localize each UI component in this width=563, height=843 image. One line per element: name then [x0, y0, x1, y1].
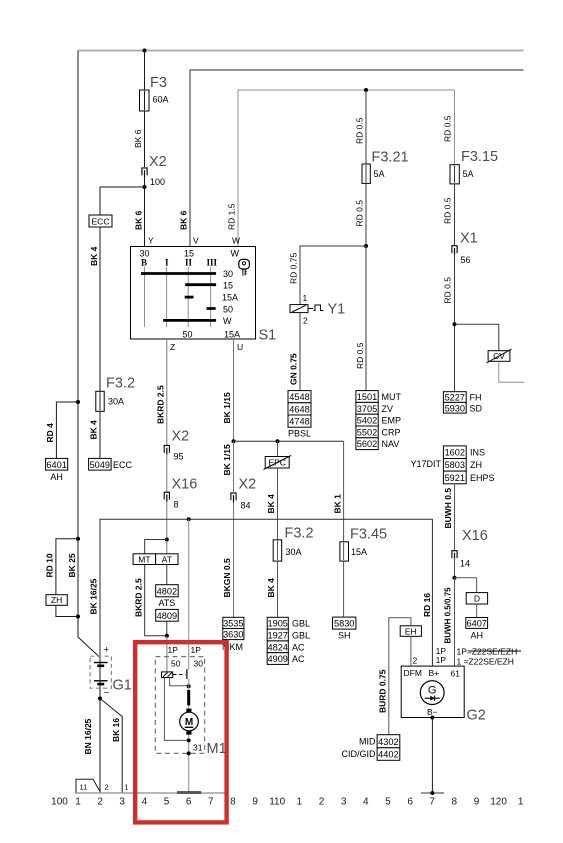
svg-text:15: 15	[223, 281, 233, 291]
svg-text:30: 30	[194, 659, 204, 669]
wire: X2-95 to X16-8	[166, 454, 168, 492]
svg-text:Y1: Y1	[328, 302, 346, 318]
svg-text:NAV: NAV	[382, 439, 400, 449]
wire: EPC down across bus to fuse F3.2 30A	[277, 468, 279, 540]
ground strap symbol at track 1	[76, 779, 100, 793]
wire: AT box to 4802	[166, 565, 168, 585]
node: F3.21 tap on W feed	[364, 88, 368, 92]
code stack 3535/3630 MKM	[223, 617, 244, 628]
wire: branch to Y1	[300, 246, 366, 305]
svg-text:BK 4: BK 4	[89, 246, 99, 266]
S1 contact bar 30	[141, 272, 216, 275]
node: starter solenoid feed	[165, 634, 169, 638]
box ZH	[46, 595, 67, 606]
wire: W feed line to fuses F3.21 / F3.15	[238, 90, 455, 247]
wire: EH to DFM pin 2	[410, 636, 412, 666]
M1 contact lever	[186, 669, 188, 679]
svg-text:50: 50	[183, 330, 193, 340]
G2 ground bar on track 7	[421, 792, 444, 794]
fuse F3 60A	[140, 90, 150, 111]
svg-text:95: 95	[174, 452, 184, 462]
svg-text:MT: MT	[138, 554, 150, 564]
svg-text:X1: X1	[460, 231, 478, 247]
wire: 4809 to starter node	[166, 621, 168, 636]
box 4809	[156, 609, 179, 621]
wire: node down to G2 terminal 61	[454, 578, 456, 666]
box EPC (crossed)	[277, 441, 279, 456]
svg-text:F3.21: F3.21	[372, 150, 409, 166]
svg-text:FH: FH	[470, 393, 482, 403]
wire: X2-84 down to 3535 codes	[233, 503, 235, 617]
svg-text:B−: B−	[427, 707, 438, 717]
wire: branch to MT box	[145, 540, 167, 554]
svg-text:11: 11	[80, 783, 88, 792]
svg-text:RD 0.5: RD 0.5	[443, 277, 453, 304]
highlight box (red)	[135, 642, 226, 822]
wire: diagonal to BK16 ground leg	[100, 699, 122, 794]
wire: S1 Z output to X2-95	[166, 339, 168, 445]
svg-text:RD 4: RD 4	[45, 423, 55, 443]
svg-text:CRP: CRP	[382, 427, 401, 437]
svg-text:6407: 6407	[466, 618, 486, 628]
node: ECC branch	[143, 185, 147, 189]
S1 contact bar 15	[185, 283, 216, 286]
svg-text:5: 5	[164, 797, 170, 808]
wire: branch to ZH box	[56, 539, 78, 595]
svg-text:5049: 5049	[90, 460, 110, 470]
node: housing exit	[187, 751, 191, 755]
node: B- exit	[430, 716, 434, 720]
wire: ECC box down to fuse F3.2	[99, 227, 101, 392]
wire: F3.15 to X1	[454, 184, 456, 245]
wire: X16-8 down across bus to MT/AT node	[166, 502, 168, 554]
battery G1 dashed housing	[90, 656, 111, 688]
svg-text:4802: 4802	[157, 586, 177, 596]
svg-text:4302: 4302	[378, 737, 398, 747]
svg-text:BK 16: BK 16	[111, 718, 121, 742]
svg-text:EMP: EMP	[382, 416, 402, 426]
svg-text:RD 1.5: RD 1.5	[227, 203, 237, 230]
svg-text:3: 3	[119, 797, 125, 808]
wire: branch to D box	[455, 578, 477, 593]
svg-text:ATS: ATS	[158, 598, 175, 608]
svg-text:14: 14	[460, 559, 470, 569]
svg-text:BK 1/15: BK 1/15	[222, 392, 232, 423]
fuse F3.15 5A	[450, 165, 459, 184]
svg-text:RD 10: RD 10	[45, 553, 55, 577]
svg-text:Y17DIT: Y17DIT	[410, 459, 441, 469]
svg-text:U: U	[237, 342, 243, 352]
S1 contact bar 50	[207, 307, 216, 310]
svg-text:BKGN 0.5: BKGN 0.5	[222, 558, 232, 597]
svg-text:X2: X2	[239, 477, 257, 493]
svg-text:4809: 4809	[157, 611, 177, 621]
code stack 5227/5930	[443, 392, 466, 403]
svg-text:RD 0.5: RD 0.5	[355, 200, 365, 227]
connector X16 pin 14	[452, 551, 457, 558]
svg-text:RD 0.5: RD 0.5	[443, 115, 453, 142]
svg-text:−: −	[104, 688, 109, 698]
code box 6407 AH	[466, 618, 488, 629]
code box 5830 SH	[333, 617, 356, 629]
svg-text:X16: X16	[462, 528, 488, 544]
wire: rail right end down to F3.45	[343, 441, 345, 542]
svg-text:BUWH 0.5: BUWH 0.5	[443, 488, 453, 529]
svg-text:120: 120	[490, 797, 507, 808]
box AT	[156, 554, 178, 565]
svg-text:Y: Y	[148, 236, 154, 246]
svg-text:BK 1: BK 1	[333, 494, 343, 514]
fuse F3.45 15A	[340, 542, 349, 561]
M1 solenoid coil	[162, 672, 173, 678]
box D	[466, 593, 487, 604]
wire: X16-14 to D-branch node	[454, 558, 456, 578]
svg-text:X16: X16	[172, 477, 198, 493]
svg-text:ECC: ECC	[92, 217, 110, 227]
svg-text:5502: 5502	[357, 427, 377, 437]
svg-text:B: B	[141, 258, 147, 268]
box MT	[133, 554, 156, 565]
svg-text:B+: B+	[429, 668, 440, 678]
svg-text:F3.2: F3.2	[106, 376, 135, 392]
svg-text:BK 6: BK 6	[134, 210, 144, 230]
svg-text:EH: EH	[405, 626, 417, 636]
svg-text:30: 30	[223, 269, 233, 279]
svg-text:III: III	[207, 258, 218, 268]
svg-text:ECC: ECC	[113, 460, 133, 470]
S1 contact bar W	[163, 319, 216, 322]
wire: fuse to 1905 codes	[277, 561, 279, 617]
code stack 4548/4648/4748 PBSL	[288, 391, 311, 403]
svg-text:3705: 3705	[357, 404, 377, 414]
svg-text:30A: 30A	[108, 397, 124, 407]
wire: F3.21 column upper	[365, 90, 367, 165]
svg-text:ZH: ZH	[470, 460, 482, 470]
svg-text:6: 6	[407, 797, 413, 808]
wire: branch to ECC box	[100, 187, 145, 215]
svg-text:1 =Z22SE/EZH: 1 =Z22SE/EZH	[457, 656, 514, 666]
node: 6401 branch on frame trunk	[76, 400, 80, 404]
svg-text:1P: 1P	[191, 645, 202, 655]
svg-text:2: 2	[413, 655, 418, 665]
svg-text:W: W	[232, 236, 240, 246]
svg-text:4909: 4909	[267, 654, 287, 664]
svg-text:BK 4: BK 4	[266, 494, 276, 514]
svg-text:W: W	[231, 249, 240, 259]
svg-text:1927: 1927	[267, 631, 287, 641]
svg-text:4748: 4748	[289, 417, 309, 427]
ignition switch S1 box	[131, 247, 256, 340]
code stack 1602/5803/5921	[443, 446, 466, 459]
wire: EPC rail	[234, 440, 344, 442]
svg-text:6401: 6401	[46, 460, 66, 470]
svg-text:AC: AC	[292, 642, 305, 652]
svg-text:2: 2	[97, 797, 103, 808]
wire: Y1 down to 4548 code box	[299, 313, 301, 391]
svg-text:1: 1	[303, 293, 308, 303]
svg-text:RD 0.75: RD 0.75	[289, 253, 299, 284]
node: minus join	[187, 738, 191, 742]
svg-text:4648: 4648	[289, 404, 309, 414]
battery cell plates	[94, 662, 108, 664]
svg-text:4402: 4402	[378, 750, 398, 760]
generator symbol	[420, 681, 444, 705]
wire: F3.15 column upper	[454, 164, 456, 166]
wire: D box to 6407	[476, 604, 478, 618]
svg-text:15A: 15A	[224, 330, 240, 340]
wire: CV exit to page edge	[499, 361, 524, 382]
fuse F3.2 (left 30A)	[96, 391, 104, 411]
svg-text:X2: X2	[149, 154, 167, 170]
svg-text:1501: 1501	[357, 392, 377, 402]
generator G2 box	[401, 666, 464, 717]
node: M1 contact output	[187, 684, 191, 688]
code box 6401 AH	[46, 458, 68, 470]
svg-text:9: 9	[252, 797, 258, 808]
svg-text:MUT: MUT	[382, 392, 402, 402]
box CV (crossed)	[488, 351, 510, 362]
svg-text:BUWH 0.5/0.75: BUWH 0.5/0.75	[444, 587, 453, 644]
svg-text:D: D	[474, 594, 480, 604]
node: MT/AT split	[165, 538, 169, 542]
svg-text:3630: 3630	[223, 630, 243, 640]
svg-text:GBL: GBL	[292, 631, 310, 641]
svg-text:Z: Z	[170, 342, 175, 352]
S1 contact bar 15A	[185, 296, 194, 299]
svg-text:BK 16/25: BK 16/25	[89, 578, 99, 614]
M1 ground bar on track 6	[177, 791, 201, 794]
svg-text:5: 5	[385, 797, 391, 808]
connector X2 pin 95	[164, 445, 169, 452]
svg-text:30A: 30A	[286, 547, 302, 557]
wire: motor minus to terminal 31	[188, 735, 190, 793]
svg-text:BKRD 2.5: BKRD 2.5	[156, 385, 166, 424]
svg-text:2: 2	[319, 797, 325, 808]
node: Y1 branch junction	[364, 244, 368, 248]
svg-text:INS: INS	[470, 448, 485, 458]
svg-text:I: I	[165, 258, 169, 268]
svg-text:5602: 5602	[357, 439, 377, 449]
svg-text:AT: AT	[162, 554, 172, 564]
svg-text:F3.45: F3.45	[350, 527, 387, 543]
svg-text:5803: 5803	[445, 460, 465, 470]
svg-text:II: II	[185, 258, 193, 268]
fuse F3.21 5A	[362, 164, 370, 183]
svg-text:RD 0.5: RD 0.5	[355, 342, 365, 369]
svg-text:BK 6: BK 6	[179, 210, 189, 230]
svg-text:4824: 4824	[267, 642, 287, 652]
svg-text:4548: 4548	[289, 392, 309, 402]
svg-text:3535: 3535	[223, 619, 243, 629]
motor M circle	[180, 712, 199, 731]
node: ZH rejoin	[76, 615, 80, 619]
svg-text:9: 9	[474, 797, 480, 808]
svg-text:PBSL: PBSL	[288, 429, 311, 439]
starter M1 dashed housing	[155, 657, 204, 754]
svg-text:G1: G1	[113, 678, 132, 694]
svg-text:1: 1	[297, 797, 303, 808]
svg-text:G: G	[428, 684, 437, 696]
solenoid valve Y1	[290, 305, 308, 313]
wire: bus tap down to M1 pin 30	[188, 519, 190, 669]
svg-text:1905: 1905	[267, 619, 287, 629]
wire: below X2-100 to S1 terminal Y	[144, 177, 146, 247]
svg-text:8: 8	[452, 797, 458, 808]
svg-text:AC: AC	[292, 654, 305, 664]
connector X16 pin 8	[164, 492, 169, 499]
svg-text:56: 56	[461, 255, 471, 265]
svg-text:BK 4: BK 4	[89, 420, 99, 440]
svg-text:BK 4: BK 4	[266, 578, 276, 598]
wire: M1 coil hold winding to motor minus	[164, 678, 188, 741]
wire: 15 feed line (black, second)	[190, 70, 524, 247]
code box 4402 CID/GID	[377, 748, 400, 761]
svg-text:15A: 15A	[222, 293, 238, 303]
svg-text:5830: 5830	[334, 619, 354, 629]
wire: fuse to 5049	[99, 411, 101, 458]
wire: U column to X2-84	[233, 441, 235, 492]
S1 key icon	[239, 259, 250, 269]
svg-text:5A: 5A	[463, 169, 474, 179]
svg-text:110: 110	[269, 797, 285, 808]
svg-text:1: 1	[518, 797, 524, 808]
wire: 1602 stack down to X16-14	[454, 484, 456, 551]
svg-text:6: 6	[186, 797, 192, 808]
svg-text:3: 3	[341, 797, 347, 808]
svg-text:+: +	[104, 645, 109, 655]
wire: 30 feed bus (gray, top)	[78, 50, 524, 52]
svg-text:S1: S1	[259, 328, 277, 344]
code box 5049 ECC	[89, 458, 112, 470]
box ECC (upper)	[89, 215, 112, 227]
svg-text:F3.15: F3.15	[461, 149, 498, 165]
svg-text:ZH: ZH	[51, 595, 62, 605]
wire: battery positive bus	[100, 519, 432, 666]
wire: MT box down and over to starter node	[145, 565, 167, 636]
box EH	[400, 626, 421, 637]
svg-text:1P: 1P	[436, 655, 447, 665]
svg-text:M: M	[185, 717, 193, 728]
svg-text:1: 1	[124, 783, 128, 792]
box 4802	[156, 585, 179, 597]
svg-text:EHPS: EHPS	[470, 473, 495, 483]
wire: left frame drop (battery positive trunk)	[78, 51, 100, 658]
svg-text:15A: 15A	[351, 547, 367, 557]
wire: F3.21 column to 1501 code box	[365, 246, 367, 391]
code stack 1905/1927/4824/4909	[267, 617, 288, 629]
node: battery minus split	[98, 697, 102, 701]
svg-text:BK 1/15: BK 1/15	[222, 444, 232, 475]
connector X2 pin 100	[142, 168, 147, 175]
node: F3 tap on 30 bus	[143, 49, 147, 53]
wire: X1 down to CV node	[454, 254, 456, 392]
svg-text:31: 31	[193, 743, 203, 753]
svg-text:M1: M1	[207, 741, 227, 757]
svg-text:8: 8	[230, 797, 236, 808]
svg-text:AH: AH	[470, 631, 483, 641]
svg-text:4: 4	[363, 797, 369, 808]
wire: F3.45 to 5830	[343, 561, 345, 617]
svg-text:84: 84	[241, 501, 251, 511]
svg-text:BK 6: BK 6	[133, 129, 143, 148]
wire: ZH return to trunk	[56, 605, 78, 616]
svg-text:1: 1	[75, 797, 81, 808]
svg-text:G2: G2	[467, 708, 486, 724]
svg-text:2: 2	[303, 316, 308, 326]
wire: S1 U output down to EPC rail	[233, 339, 235, 441]
svg-text:7: 7	[429, 797, 435, 808]
svg-text:1602: 1602	[445, 448, 465, 458]
wire: branch to CV code box	[455, 324, 499, 350]
svg-text:F3: F3	[150, 75, 167, 91]
svg-text:60A: 60A	[153, 95, 169, 105]
current track baseline (left)	[75, 792, 229, 794]
motor M brush squares	[186, 709, 191, 713]
svg-text:100: 100	[51, 797, 68, 808]
code box 4302 MID	[377, 735, 400, 748]
wire: branch to 6401	[56, 402, 78, 458]
svg-text:BN 16/25: BN 16/25	[83, 718, 93, 754]
svg-text:BKRD 2.5: BKRD 2.5	[134, 578, 144, 617]
svg-text:SD: SD	[470, 403, 483, 413]
svg-text:RD 0.5: RD 0.5	[355, 117, 365, 144]
svg-text:2: 2	[105, 783, 109, 792]
svg-text:X2: X2	[172, 429, 190, 445]
wire: F3 branch upper	[144, 51, 146, 168]
M1 contact actuator link (dashed)	[173, 674, 186, 676]
svg-text:GBL: GBL	[292, 619, 310, 629]
svg-text:8: 8	[174, 500, 179, 510]
S1 position columns (gray)	[144, 267, 146, 327]
code stack 1501..5602	[356, 391, 378, 403]
svg-text:RD 16: RD 16	[422, 593, 432, 617]
svg-text:MID: MID	[359, 737, 376, 747]
wire: F3.21 to node with Y1 branch	[365, 183, 367, 246]
node: D branch	[453, 576, 457, 580]
svg-text:BURD 0.75: BURD 0.75	[378, 669, 388, 713]
svg-text:GN 0.75: GN 0.75	[289, 353, 299, 385]
svg-text:ZV: ZV	[382, 404, 394, 414]
connector X2 pin 84	[231, 493, 236, 500]
svg-text:50: 50	[223, 305, 233, 315]
svg-text:5930: 5930	[445, 403, 465, 413]
node: EPC drop	[276, 439, 280, 443]
fuse F3.2 (30A mid)	[273, 540, 282, 561]
svg-text:7: 7	[208, 797, 214, 808]
svg-text:5227: 5227	[445, 393, 465, 403]
node: starter feed tap	[187, 517, 191, 521]
svg-text:W: W	[223, 316, 232, 326]
M1 heavy contact bar	[187, 690, 190, 705]
svg-text:5A: 5A	[374, 169, 385, 179]
svg-text:100: 100	[150, 177, 165, 187]
svg-text:50: 50	[171, 659, 181, 669]
svg-text:1P: 1P	[168, 645, 179, 655]
node: rail left end	[232, 439, 236, 443]
svg-text:CID/GID: CID/GID	[341, 749, 376, 759]
svg-text:RD 0.5: RD 0.5	[443, 197, 453, 224]
wire: G2 B- to ground	[431, 718, 433, 794]
svg-text:V: V	[193, 236, 199, 246]
svg-text:61: 61	[451, 668, 461, 678]
svg-text:4: 4	[142, 797, 148, 808]
wire: coil link to contact node	[170, 678, 189, 686]
connector X1 pin 56	[452, 246, 457, 253]
svg-text:AH: AH	[50, 472, 63, 482]
svg-text:5402: 5402	[357, 416, 377, 426]
wire: contact to motor	[188, 679, 190, 709]
wire: minus trunk to ground track 2	[99, 699, 101, 794]
